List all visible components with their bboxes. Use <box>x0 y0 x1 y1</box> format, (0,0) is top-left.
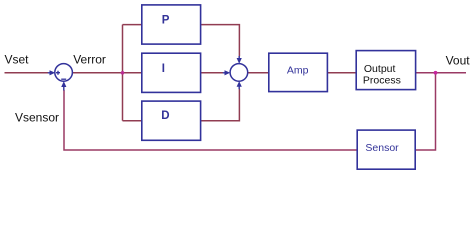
wire Verror to I <box>72 72 141 74</box>
node branch junction <box>121 71 125 75</box>
wire branch vertical P-D <box>122 25 124 121</box>
wire into P <box>123 24 142 26</box>
arrowhead into S1 bottom <box>63 87 65 91</box>
svg-text:D: D <box>161 110 169 122</box>
node Vout junction <box>434 71 438 75</box>
svg-text:Process: Process <box>363 75 401 87</box>
minus sign in S1 <box>61 78 66 80</box>
wire I output <box>201 72 223 74</box>
wire Sensor output feedback <box>64 90 357 150</box>
wire Amp to Output Process <box>327 72 356 74</box>
block Output Process <box>356 51 415 90</box>
svg-text:P: P <box>162 15 170 27</box>
wire summer2 to Amp <box>248 72 269 74</box>
block P <box>142 5 201 44</box>
block Amp <box>269 53 328 91</box>
summing junction S1 <box>55 64 73 82</box>
svg-text:Verror: Verror <box>73 52 106 66</box>
svg-text:Vsensor: Vsensor <box>15 111 59 125</box>
summing junction S2 <box>230 64 248 82</box>
svg-text:Sensor: Sensor <box>365 142 399 154</box>
svg-text:Amp: Amp <box>287 65 309 77</box>
svg-text:I: I <box>162 63 165 75</box>
block Sensor <box>357 130 415 169</box>
block D <box>142 101 201 140</box>
wire feedback down <box>415 73 435 150</box>
wire Vset input <box>5 72 49 74</box>
wire P output <box>201 25 240 57</box>
arrowhead into S1 left <box>48 72 50 74</box>
wire D input <box>123 120 142 122</box>
arrowhead into S2 bottom <box>238 87 240 90</box>
svg-text:Vset: Vset <box>5 52 30 66</box>
svg-text:Vout: Vout <box>446 53 471 67</box>
wire D output <box>201 89 240 121</box>
plus sign in S1 <box>56 71 60 75</box>
block I <box>142 53 201 92</box>
svg-text:Output: Output <box>364 63 396 75</box>
arrowhead into S2 left <box>223 72 225 74</box>
arrowhead into S2 top <box>238 56 240 59</box>
wire Output Process to Vout <box>416 72 466 74</box>
